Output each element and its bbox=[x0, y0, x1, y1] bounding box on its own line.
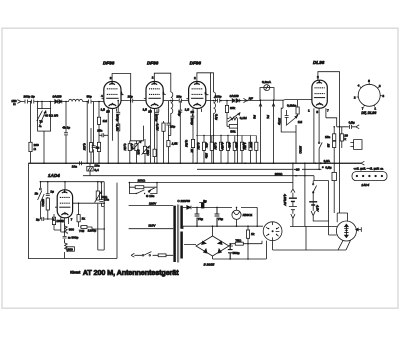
svg-text:10n: 10n bbox=[72, 165, 77, 169]
capacitor 50p bbox=[87, 95, 92, 104]
svg-text:0,1μ: 0,1μ bbox=[215, 114, 219, 120]
svg-text:1M: 1M bbox=[103, 119, 108, 123]
tube V1 DF96 bbox=[104, 82, 121, 109]
resistor 1M grid leak bbox=[97, 102, 107, 164]
switch pin5 column bbox=[318, 142, 322, 149]
svg-text:G 10s: G 10s bbox=[146, 194, 155, 198]
switch S1 lever bbox=[37, 111, 59, 128]
wire: 1AD4 right column bbox=[61, 182, 117, 259]
heater loop 200 Ohm bbox=[129, 178, 158, 198]
capacitor 500u bbox=[228, 244, 240, 260]
wire: socket B right terminal bbox=[356, 227, 361, 232]
svg-text:4,7k: 4,7k bbox=[130, 144, 134, 150]
connector strip 1AD4 bbox=[352, 167, 387, 188]
svg-text:75Ω: 75Ω bbox=[235, 238, 241, 242]
capacitor 1u 1AD4 bbox=[46, 182, 54, 198]
wire: socket B bottom leads bbox=[306, 227, 350, 251]
wire: bus 3 bbox=[83, 176, 329, 181]
svg-text:5: 5 bbox=[368, 79, 370, 83]
tube V2 DF96 bbox=[146, 82, 163, 109]
svg-text:DF96: DF96 bbox=[103, 61, 115, 66]
capacitor 10n 1AD4 bbox=[99, 183, 109, 207]
wire: V1 pin column bbox=[107, 114, 108, 163]
capacitor 2u bbox=[36, 217, 48, 222]
capacitor 0,5u output bbox=[337, 121, 356, 129]
wire: ground bus 1 bbox=[28, 162, 361, 164]
resistor forest middle bbox=[196, 135, 258, 163]
resistor 20k below DL96 bbox=[340, 127, 348, 148]
svg-text:200p: 200p bbox=[116, 114, 120, 122]
tube V5 1AD4 bbox=[57, 190, 72, 218]
resistor 15n below DL96 bbox=[325, 126, 336, 172]
resistor 0,9M grid bbox=[287, 100, 299, 116]
svg-text:1: 1 bbox=[308, 109, 310, 113]
resistor 1k 1AD4 bbox=[77, 202, 85, 226]
capacitor 1u bbox=[92, 102, 100, 164]
wire: PSU link bbox=[247, 243, 249, 245]
svg-text:8: 8 bbox=[382, 94, 384, 98]
svg-text:DL96: DL96 bbox=[313, 60, 325, 65]
tube V1 pins bbox=[101, 76, 124, 114]
jack 0,5 bbox=[322, 166, 332, 170]
svg-text:8μ: 8μ bbox=[203, 199, 207, 203]
wavechange switch box bbox=[38, 102, 51, 164]
svg-text:15n: 15n bbox=[325, 135, 330, 139]
svg-text:2b: 2b bbox=[35, 191, 39, 195]
wire: V3 to detector bbox=[206, 100, 260, 102]
node: input junctions bbox=[30, 101, 100, 103]
wire: V2 second pin to bus bbox=[154, 113, 156, 163]
svg-text:20k: 20k bbox=[230, 106, 235, 110]
svg-text:0,2mA: 0,2mA bbox=[262, 80, 272, 84]
socket diagram DF DL96 bbox=[354, 79, 385, 110]
wire: V1 to V2 signal bbox=[121, 100, 146, 102]
svg-text:1,5: 1,5 bbox=[185, 108, 190, 112]
svg-text:20k: 20k bbox=[235, 142, 239, 148]
svg-text:70μ: 70μ bbox=[198, 217, 203, 221]
node: HT right junction bbox=[256, 225, 258, 227]
svg-text:110V: 110V bbox=[148, 224, 156, 228]
svg-text:4b 1p: 4b 1p bbox=[62, 125, 70, 129]
jack square bbox=[350, 140, 362, 150]
svg-text:0,1M: 0,1M bbox=[123, 144, 127, 151]
svg-text:70: 70 bbox=[39, 120, 43, 124]
svg-text:50p: 50p bbox=[87, 95, 92, 99]
socket So1 octal bbox=[263, 222, 282, 241]
meter rectifier box bbox=[260, 88, 274, 101]
svg-text:1: 1 bbox=[121, 91, 123, 95]
diode D3 0A159 bbox=[232, 99, 235, 103]
svg-text:1AD4: 1AD4 bbox=[361, 183, 369, 187]
svg-text:500μ: 500μ bbox=[233, 251, 240, 255]
wire: heater mid line bbox=[183, 226, 263, 229]
svg-text:1,5k: 1,5k bbox=[172, 142, 178, 146]
node: top rail junctions bbox=[170, 100, 241, 102]
resistor cluster V2 bbox=[150, 101, 178, 164]
wire: 1AD4 top rail bbox=[28, 163, 117, 258]
capacitor 200p V1 anode bbox=[116, 101, 121, 124]
svg-text:1: 1 bbox=[163, 91, 165, 95]
wire: V1 second pin to bus bbox=[111, 113, 113, 141]
svg-text:3,4: 3,4 bbox=[94, 168, 99, 172]
svg-text:7: 7 bbox=[362, 106, 364, 110]
pilot lamp KB8C1 bbox=[232, 207, 253, 226]
svg-text:200Ω: 200Ω bbox=[138, 178, 146, 182]
wire: V2 anode top rail bbox=[154, 73, 171, 92]
svg-text:1,1M: 1,1M bbox=[221, 143, 225, 150]
svg-text:0A159: 0A159 bbox=[230, 94, 239, 98]
capacitor 2p bbox=[24, 95, 35, 104]
wire: L3 coil to bus bbox=[213, 122, 215, 164]
svg-text:1M: 1M bbox=[298, 120, 303, 124]
capacitor 8u bbox=[199, 199, 207, 208]
svg-text:4,5V: 4,5V bbox=[316, 205, 320, 212]
svg-text:10k: 10k bbox=[249, 143, 253, 148]
wire: L2 coil tail bbox=[168, 121, 170, 136]
svg-text:40 kΩ 2/6: 40 kΩ 2/6 bbox=[45, 113, 59, 117]
svg-text:1μ: 1μ bbox=[50, 190, 54, 194]
resistor 1k PSU bbox=[246, 225, 254, 259]
resistor 50k detector bbox=[227, 119, 238, 164]
svg-text:2: 2 bbox=[110, 76, 112, 80]
svg-text:DF96: DF96 bbox=[190, 61, 202, 66]
svg-text:0,9Mω: 0,9Mω bbox=[287, 103, 297, 107]
svg-text:0A159: 0A159 bbox=[53, 94, 62, 98]
svg-text:200p: 200p bbox=[277, 117, 281, 125]
svg-text:1AD4: 1AD4 bbox=[48, 173, 60, 178]
svg-text:Klemt: Klemt bbox=[70, 271, 81, 275]
tube V3 DF96 bbox=[189, 82, 206, 109]
svg-text:25n: 25n bbox=[97, 128, 102, 132]
svg-text:6,3A: 6,3A bbox=[324, 159, 331, 163]
svg-text:0,1M: 0,1M bbox=[155, 124, 159, 131]
diode D4 bbox=[230, 94, 240, 102]
wire: mains 110V tap bbox=[129, 228, 174, 230]
svg-text:47k: 47k bbox=[204, 143, 208, 148]
feedthrough capacitor 10n bbox=[87, 163, 100, 176]
battery B2 switch bbox=[313, 181, 317, 202]
transformer Tr windings bbox=[175, 206, 182, 262]
svg-text:7: 7 bbox=[71, 218, 73, 222]
svg-text:+1 μ1 −1 μ2 a: +1 μ1 −1 μ2 a bbox=[354, 167, 384, 171]
label 6,3A on bus bbox=[320, 159, 331, 164]
svg-text:200p 2p: 200p 2p bbox=[24, 95, 35, 99]
capacitor 70u a bbox=[195, 207, 204, 226]
tube V3 pins bbox=[185, 76, 209, 114]
svg-text:P2: P2 bbox=[252, 115, 256, 119]
potentiometer 10 Ohm filament bbox=[95, 182, 108, 227]
meter M1 0,2mA bbox=[262, 80, 272, 91]
svg-text:0,1M: 0,1M bbox=[83, 143, 87, 150]
svg-text:300: 300 bbox=[68, 247, 73, 251]
capacitor 100p bbox=[215, 95, 222, 103]
svg-text:200Ω: 200Ω bbox=[275, 172, 283, 176]
resistor cluster V3 bbox=[185, 113, 198, 163]
wire: V4 anode top rail bbox=[318, 72, 348, 223]
node: 1AD4 junctions bbox=[40, 181, 105, 233]
tube V4 DL96 bbox=[312, 80, 327, 108]
potentiometer 0,1M detector bbox=[227, 112, 247, 124]
svg-text:a: a bbox=[40, 124, 42, 128]
bus 1 end arrow bbox=[361, 161, 364, 165]
resistor 0,1M left bbox=[83, 102, 93, 164]
svg-text:100k: 100k bbox=[56, 219, 63, 223]
svg-text:P1: P1 bbox=[266, 115, 270, 119]
svg-text:0,5μ: 0,5μ bbox=[349, 121, 355, 125]
svg-text:2: 2 bbox=[194, 76, 196, 80]
svg-text:m 300p: m 300p bbox=[68, 235, 79, 239]
svg-text:5: 5 bbox=[316, 110, 318, 114]
svg-text:745: 745 bbox=[79, 229, 84, 233]
diode D1 0A159 bbox=[55, 100, 58, 104]
svg-text:1,5: 1,5 bbox=[143, 107, 148, 111]
wire: AF to DL96 grid bbox=[274, 100, 312, 109]
capacitor 10n on bus bbox=[72, 161, 82, 168]
capacitor 4b 1p bbox=[62, 102, 70, 164]
resistor 300u zigzag bbox=[65, 242, 75, 259]
svg-text:B 20/15: B 20/15 bbox=[204, 262, 215, 266]
wire: heater line bottom bbox=[290, 226, 337, 228]
output jack arrow bbox=[356, 125, 359, 129]
wire: bus 2 bbox=[197, 168, 321, 170]
tube V5 pins bbox=[53, 203, 104, 226]
svg-text:25: 25 bbox=[191, 110, 195, 114]
wire: V3 anode top rail bbox=[197, 73, 214, 92]
wire: V1 anode column bbox=[130, 101, 132, 141]
svg-text:20p: 20p bbox=[128, 94, 133, 98]
svg-text:1k: 1k bbox=[82, 217, 86, 221]
svg-text:2: 2 bbox=[152, 76, 154, 80]
svg-text:20p: 20p bbox=[176, 94, 181, 98]
capacitor 20p stage1 bbox=[128, 94, 133, 102]
svg-text:0,1M: 0,1M bbox=[214, 143, 218, 150]
svg-text:1: 1 bbox=[205, 91, 207, 95]
resistor 300 zigzag bbox=[65, 225, 75, 234]
svg-text:22: 22 bbox=[326, 143, 330, 148]
battery B1 4,5/2,5V bbox=[283, 163, 297, 226]
svg-text:7: 7 bbox=[327, 109, 329, 113]
wire: bridge connections bbox=[184, 226, 266, 259]
wire: mains 220V tap bbox=[129, 205, 174, 207]
switch S2 filament bbox=[35, 182, 45, 219]
capacitor 300p bbox=[63, 234, 79, 242]
switch S3 mains bbox=[142, 252, 151, 257]
diode HT bbox=[187, 206, 191, 210]
svg-text:0,1M: 0,1M bbox=[240, 116, 247, 120]
svg-text:1: 1 bbox=[374, 106, 376, 110]
svg-text:1,5M: 1,5M bbox=[242, 143, 246, 150]
fuse F1 bbox=[158, 254, 166, 257]
tube V2 pins bbox=[143, 76, 166, 114]
svg-text:70μ: 70μ bbox=[218, 217, 223, 221]
svg-text:10k: 10k bbox=[137, 149, 141, 154]
svg-text:2k: 2k bbox=[190, 148, 194, 153]
svg-text:30Ω: 30Ω bbox=[146, 150, 150, 156]
potentiometer P1 bbox=[266, 99, 275, 163]
volume potentiometer 1M bbox=[281, 108, 302, 132]
inductor L1 input coil bbox=[69, 99, 83, 101]
resistor 20k detector bbox=[225, 100, 235, 119]
capacitor 25n V1 cathode bbox=[97, 128, 107, 137]
svg-text:DF, DL96: DF, DL96 bbox=[361, 111, 376, 115]
wire: V3 screen stub bbox=[210, 72, 212, 142]
diode D2 bbox=[53, 94, 62, 103]
battery B2 4,5V bbox=[309, 202, 328, 221]
svg-text:50p: 50p bbox=[177, 111, 181, 116]
svg-text:0,5μ: 0,5μ bbox=[325, 166, 331, 170]
svg-text:50k: 50k bbox=[230, 130, 235, 134]
wire: drop to 200 ohm resistor bbox=[30, 102, 32, 164]
resistor 30 Ohm V2 cathode bbox=[146, 149, 156, 156]
svg-text:2: 2 bbox=[354, 96, 356, 100]
potentiometer P2 bbox=[252, 99, 262, 163]
wire: antenna input line bbox=[21, 101, 105, 103]
node: stage1 junctions bbox=[117, 100, 131, 102]
svg-text:25: 25 bbox=[106, 110, 110, 114]
bridge rectifier B20/15 bbox=[196, 236, 229, 266]
svg-text:300: 300 bbox=[69, 227, 74, 231]
svg-text:200Ω: 200Ω bbox=[299, 145, 303, 154]
svg-text:10n: 10n bbox=[104, 198, 109, 202]
svg-text:−20: −20 bbox=[294, 168, 300, 172]
svg-text:AT 200 M, Antennentestgerät: AT 200 M, Antennentestgerät bbox=[83, 268, 179, 277]
resistor 1,5k V1 bbox=[115, 124, 119, 163]
svg-text:100p: 100p bbox=[215, 95, 222, 99]
svg-text:2μ: 2μ bbox=[36, 218, 40, 222]
wire: heater to socket A bbox=[273, 241, 306, 250]
wire: V1 anode top rail bbox=[112, 74, 131, 101]
resistor 745 horizontal bbox=[79, 226, 97, 233]
tube V4 pins bbox=[308, 75, 337, 169]
svg-text:25: 25 bbox=[148, 110, 152, 114]
svg-text:0,1M: 0,1M bbox=[197, 143, 201, 150]
svg-text:220V: 220V bbox=[149, 201, 157, 205]
svg-text:10k: 10k bbox=[227, 143, 231, 148]
wire: stage2 junction drop bbox=[178, 101, 182, 164]
resistor 100k 1AD4 bbox=[48, 214, 64, 232]
svg-text:1: 1 bbox=[53, 218, 55, 222]
inductor L2 IF coil bbox=[171, 92, 173, 121]
svg-text:0,5M: 0,5M bbox=[185, 140, 189, 147]
capacitor 200p V2 anode bbox=[154, 109, 159, 123]
node: HT line junctions bbox=[196, 207, 237, 227]
inductor L3 IF coil bbox=[214, 92, 216, 122]
svg-text:1k: 1k bbox=[251, 232, 255, 236]
resistor 75 Ohm bbox=[229, 238, 262, 246]
svg-text:1,5: 1,5 bbox=[101, 107, 106, 111]
resistor cluster V1 cathode bbox=[123, 126, 143, 164]
capacitor 200p bbox=[25, 100, 28, 104]
wire: socket B left mid lead bbox=[329, 227, 337, 236]
svg-text:KB8C1: KB8C1 bbox=[243, 213, 253, 217]
wire: battery rail verticals bbox=[305, 163, 329, 226]
NF output arrow bbox=[243, 96, 253, 102]
wire: bus 4 bbox=[129, 182, 293, 184]
wire: mains bottom with plug arrow bbox=[131, 253, 173, 257]
antenna input terminal bbox=[11, 99, 20, 106]
node: bus junction dots bbox=[43, 162, 325, 176]
wire: volume block to bus bbox=[295, 132, 297, 163]
resistor 650 Ohm bbox=[41, 198, 49, 219]
svg-text:4: 4 bbox=[358, 84, 360, 88]
svg-text:DF96: DF96 bbox=[147, 61, 159, 66]
potentiometer 10k V2 bbox=[137, 139, 150, 163]
capacitor 20p stage2 bbox=[176, 94, 181, 102]
svg-text:3: 3 bbox=[379, 84, 381, 88]
svg-text:4,5/2,5V: 4,5/2,5V bbox=[283, 194, 287, 206]
wire: V2 to V3 signal bbox=[163, 100, 188, 102]
svg-text:1,5k: 1,5k bbox=[115, 125, 119, 131]
svg-text:25n: 25n bbox=[205, 152, 209, 158]
fuse box right bbox=[332, 172, 336, 213]
resistor 200 Ohm bbox=[29, 142, 39, 151]
svg-text:4: 4 bbox=[101, 94, 103, 98]
wire: HT secondary top bbox=[183, 207, 257, 226]
capacitor 200p volume bbox=[277, 110, 288, 125]
capacitor 200p V3 anode bbox=[190, 114, 195, 125]
svg-text:C 220/40: C 220/40 bbox=[177, 199, 190, 203]
capacitor 70u b bbox=[215, 207, 224, 226]
svg-text:650Ω: 650Ω bbox=[41, 199, 45, 207]
socket So2 battery bbox=[336, 221, 356, 241]
transformer Tr core bbox=[177, 205, 178, 263]
